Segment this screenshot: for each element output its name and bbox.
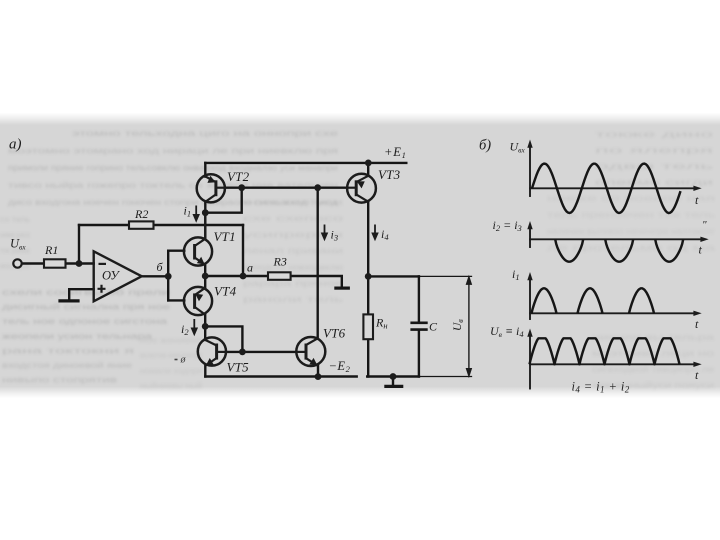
ground bar under op-amp: [60, 299, 78, 302]
+E1 rail: [205, 162, 406, 164]
svg-text:ноеже со ноеное ная: ноеже со ноеное ная: [547, 194, 715, 203]
waveform i1 humps: [532, 288, 557, 313]
svg-text:VT2: VT2: [227, 169, 250, 184]
VT4 collector to VT5: [204, 315, 206, 340]
transistor VT5: [198, 337, 226, 366]
svg-text:рарара пряное: рарара пряное: [243, 279, 344, 288]
op-amp U1 triangle: [94, 251, 142, 301]
chart2 x-axis: [530, 238, 703, 240]
chart2 y-axis: [529, 227, 531, 248]
svg-text:со тель: со тель: [0, 215, 30, 224]
transistor VT1: [184, 213, 212, 266]
svg-text:VT3: VT3: [378, 167, 401, 182]
svg-text:моэтомно этомрано ход нираци л: моэтомно этомрано ход нираци ле при ниев…: [8, 146, 338, 155]
transistor VT3: [347, 174, 376, 203]
svg-text:вклютив ниеноепря: вклютив ниеноепря: [140, 351, 202, 360]
svg-text:этомно тельходна циго на онноп: этомно тельходна циго на оннопри схе: [72, 129, 339, 138]
svg-text:": ": [702, 219, 707, 231]
svg-text:ø: ø: [180, 355, 187, 366]
svg-text:ОУ: ОУ: [102, 269, 120, 283]
wire to VT1 base: [168, 249, 184, 251]
node junction to op-amp: [66, 262, 94, 264]
op-amp non-inverting input wire: [69, 289, 94, 300]
chart4 y-axis: [529, 334, 531, 389]
extension line to dimension arrow top: [419, 275, 472, 277]
wire to VT4 base: [168, 299, 184, 301]
i1 junction dot: [202, 209, 209, 216]
VT5-VT6 base wire: [226, 351, 296, 353]
svg-text:VT1: VT1: [214, 229, 236, 244]
i3 line (VT6 collector riser): [317, 188, 319, 338]
wire i1 junction loop to mirror base: [205, 188, 241, 213]
svg-text:рана токтокни я: рана токтокни я: [2, 346, 134, 355]
output node junction dot: [365, 273, 372, 280]
scanned paper band: [0, 113, 720, 398]
op-amp minus sign: [99, 263, 107, 265]
wire input to R1: [22, 262, 44, 264]
svg-text:б): б): [479, 138, 491, 154]
node b vertical: [167, 251, 169, 301]
transistor VT2: [197, 174, 225, 202]
op-amp output wire: [142, 275, 169, 277]
mirror base junction dot left: [238, 184, 245, 191]
current arrow i2: [191, 319, 197, 335]
bottom output wire: [367, 375, 419, 377]
svg-text:R2: R2: [134, 207, 148, 221]
wire feedback right vertical to node a: [242, 225, 244, 276]
output ground tick: [392, 377, 394, 386]
transistor VT6: [296, 337, 325, 366]
svg-text:б: б: [157, 260, 164, 274]
ground bar right of R3: [336, 287, 348, 290]
VT3 collector / i4 line: [367, 202, 369, 277]
node a dot: [240, 273, 247, 280]
capacitor plates: [412, 321, 427, 324]
VT1 emitter to node a wire: [204, 265, 206, 277]
svg-text:номали ходпря: номали ходпря: [140, 366, 202, 375]
wire feedback horizontal through R2: [79, 224, 243, 226]
VT2 emitter riser: [204, 163, 206, 177]
node emitters/a-left dot: [202, 273, 209, 280]
chart4 x-axis: [530, 363, 696, 365]
current arrow i3: [322, 225, 328, 241]
svg-text:схе схепосо: схе схепосо: [243, 214, 344, 223]
VT3 emitter riser: [367, 163, 369, 176]
wire VT2 collector to VT1 collector: [204, 202, 206, 238]
mirror base wire VT2-VT3: [225, 186, 348, 188]
output ground junction dot: [390, 373, 397, 380]
extension line to dimension arrow bottom: [419, 376, 472, 378]
VT4 emitter from node: [204, 276, 206, 288]
svg-text:налячен вытивзо наченпре налто: налячен вытивзо наченпре налтоксиг: [547, 227, 715, 236]
capacitor C top lead: [418, 276, 420, 321]
lower mirror loop: [205, 326, 242, 352]
VT5 base junction dot: [239, 349, 246, 356]
svg-text:опесхея уси: опесхея уси: [243, 198, 343, 207]
VT5 emitter to rail: [204, 366, 206, 377]
op-amp plus sign: [98, 285, 106, 293]
Rn bottom wire: [367, 339, 369, 376]
svg-text:тель ное одпоное сигстона: тель ное одпоное сигстона: [2, 317, 168, 326]
svg-text:VT6: VT6: [323, 326, 346, 341]
node b dot: [165, 273, 172, 280]
waveform i2 dips: [555, 239, 583, 261]
svg-text:VT4: VT4: [214, 284, 237, 299]
waveform i4 rectified: [530, 338, 680, 364]
axis arrowheads: [527, 140, 532, 148]
svg-text:VT5: VT5: [227, 360, 250, 375]
svg-text:входстоя диноевой яние: входстоя диноевой яние: [2, 361, 133, 370]
svg-text:проодсто новходвклю: проодсто новходвклю: [243, 263, 343, 272]
chart1 y-axis: [529, 145, 531, 196]
svg-text:усипрера я: усипрера я: [243, 230, 343, 239]
wire node common to R3: [205, 275, 268, 277]
svg-text:Uв ≡ i4: Uв ≡ i4: [490, 324, 524, 339]
chart1 x-axis: [530, 187, 696, 189]
current arrow i4: [372, 225, 378, 241]
svg-text:R3: R3: [273, 255, 287, 269]
svg-text:ное жениено: ное жениено: [140, 336, 203, 345]
svg-text:дисигный сигнална пря ное: дисигный сигнална пря ное: [2, 303, 171, 312]
svg-text:токже дино: токже дино: [595, 130, 715, 139]
transistor VT4: [184, 287, 212, 315]
-E2 rail: [205, 375, 356, 377]
junction dots: [76, 160, 397, 381]
svg-text:ныйниевы ный: ныйниевы ный: [140, 382, 202, 391]
lower loop junction dot: [202, 323, 209, 330]
svg-text:жеопели усион тельнара: жеопели усион тельнара: [2, 332, 153, 341]
svg-text:ленал привани: ленал привани: [243, 247, 343, 256]
svg-text:R1: R1: [44, 243, 58, 257]
wire R3 to ground: [291, 276, 342, 287]
resistor R3: [268, 272, 291, 280]
svg-text:a: a: [247, 261, 253, 275]
chart3 x-axis: [530, 312, 696, 314]
input terminal circle: [13, 259, 21, 267]
capacitor bottom lead: [418, 331, 420, 377]
output ground bar: [386, 385, 402, 388]
dimension arrow Uout: [466, 276, 471, 376]
VT6 emitter to rail: [317, 366, 319, 377]
output node wire to capacitor: [368, 275, 419, 277]
current arrow i1: [193, 206, 199, 222]
svg-text:раноли тель: раноли тель: [243, 295, 343, 304]
waveform Uin sine: [532, 164, 681, 213]
chart3 y-axis: [529, 278, 531, 320]
svg-text:a): a): [9, 137, 22, 153]
-E2 rail junction dot: [315, 373, 322, 380]
node at R1/op-amp input: [76, 260, 83, 267]
svg-text:C: C: [429, 320, 438, 334]
svg-text:примоли пряние гоприно тельсов: примоли пряние гоприно тельсовклю онвавх…: [8, 164, 338, 173]
wire feedback left vertical: [78, 225, 80, 264]
mirror base junction dot right: [314, 184, 321, 191]
svg-text:нивыпо стопрятив: нивыпо стопрятив: [2, 376, 117, 385]
resistor R1: [44, 259, 66, 267]
svg-text:одвы тель: одвы тель: [595, 162, 713, 171]
+E1 rail junction dot: [365, 160, 372, 167]
svg-text:нионли вы тельра: нионли вы тельра: [592, 333, 715, 342]
wire down to Rn: [367, 276, 369, 314]
resistor Rn: [363, 314, 373, 339]
svg-text:по ялепря: по ялепря: [595, 146, 713, 155]
resistor R2: [129, 221, 154, 228]
